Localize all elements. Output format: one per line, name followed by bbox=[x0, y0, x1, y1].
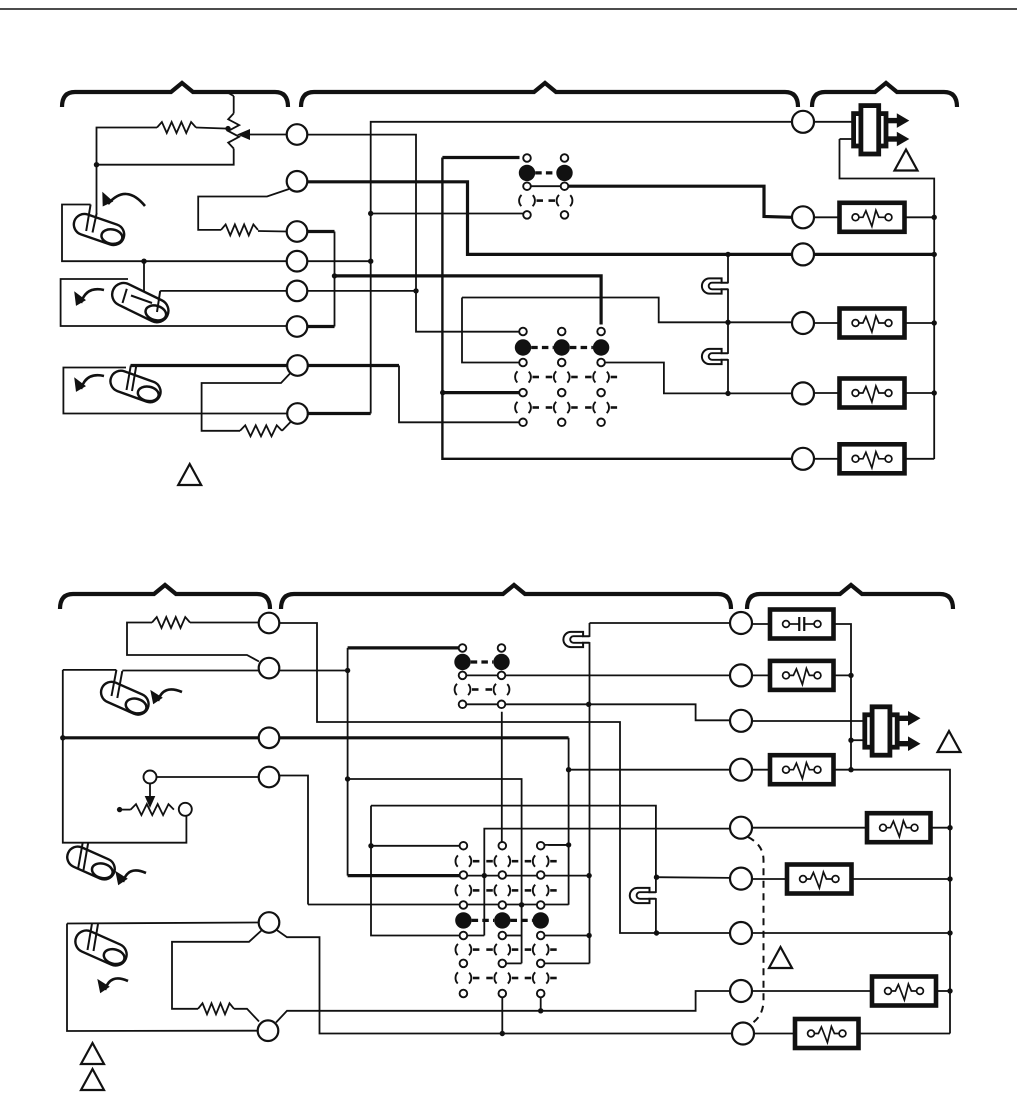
resistor R5b bbox=[198, 1003, 234, 1014]
wire: C7 to right bus bbox=[859, 1033, 951, 1035]
contact K2 col1 open contacts bbox=[515, 369, 531, 385]
wire: C4 to right bus bbox=[931, 827, 951, 829]
wire: B1b left wire bbox=[63, 669, 117, 671]
terminal L5 bbox=[259, 912, 280, 933]
terminal T4 bbox=[287, 251, 308, 272]
node: vertical K / TR2 bbox=[848, 738, 853, 743]
wire: K4 col1 row935 to vertical G bbox=[463, 935, 484, 937]
wire: C6 to right bus bbox=[936, 990, 950, 992]
contact K2 linkage bbox=[531, 346, 553, 349]
contact K4 linkage bbox=[472, 919, 495, 922]
glow lamp LP1b bbox=[583, 637, 593, 642]
wire: R1 right lead to potentiometer bbox=[196, 128, 228, 129]
wire: H1 leads bbox=[814, 216, 840, 218]
terminal Q2 bbox=[730, 664, 752, 686]
resistor R2 bbox=[240, 425, 282, 436]
B3 electrodes bbox=[127, 366, 131, 391]
wire: P2 left lead bbox=[120, 809, 131, 811]
wire: row845 col3 link bbox=[548, 844, 568, 846]
component box C5 bbox=[787, 865, 852, 894]
contact K4 col1 open contacts bbox=[456, 853, 472, 869]
note triangle 6 bbox=[81, 1069, 104, 1090]
wire: L4 left to wiper circle bbox=[157, 776, 259, 778]
wire: bus E top to contact K3 col1 bbox=[348, 646, 463, 649]
wire: L1 right to terminal Q7 long run bbox=[280, 623, 731, 933]
wire: T6 right bbox=[308, 325, 335, 328]
wire: K4 col3 bottom stub bbox=[540, 994, 542, 1011]
contact K3 col2 closed contact bbox=[493, 654, 509, 670]
wire: vertical bus B with top run to terminal R1t bbox=[308, 412, 371, 415]
P1 wiper arrowhead bbox=[237, 129, 250, 140]
node: right bus / Q5 row bbox=[947, 825, 952, 830]
node: lamp bus mid junction bbox=[725, 320, 730, 325]
terminal T3 bbox=[287, 221, 308, 242]
dashed linkage Q5-Q9 bbox=[748, 837, 764, 1024]
note triangle 5 bbox=[81, 1043, 104, 1064]
contact K4 col1 closed contact bbox=[455, 912, 471, 928]
wire: vertical F stub to K4 col2 (upper) bbox=[506, 935, 521, 937]
node: lamp bus top junction bbox=[725, 252, 730, 257]
wire: Q6 left wire bbox=[657, 876, 731, 879]
note triangle 3 bbox=[769, 947, 792, 968]
terminal T1 bbox=[287, 124, 308, 145]
wire: T7 right to K2 col1 bottom bbox=[308, 364, 399, 367]
wire: vertical H branch to Q4 bbox=[569, 769, 731, 771]
potentiometer P1 bbox=[228, 113, 239, 148]
terminal R3t bbox=[792, 243, 814, 265]
terminal R5t bbox=[792, 382, 814, 404]
wire: K4 col3 top to vertical H bbox=[541, 844, 569, 846]
wire: K2 col1 lower branch loop bbox=[462, 298, 792, 323]
glow lamp LP2 bbox=[721, 354, 731, 359]
brace: thermostat section (top diagram) bbox=[62, 83, 288, 107]
wire: K4 col1 top branch bbox=[371, 845, 463, 847]
wire: L4 right to row905 bbox=[280, 776, 309, 905]
terminal Q1 bbox=[730, 612, 752, 634]
contact K4 dashed ticks y978 bbox=[473, 977, 480, 980]
node: row875 / vertical G junction bbox=[482, 873, 487, 878]
wire: T1 right to vertical bus A bbox=[308, 135, 524, 332]
wire: R5b to L6 bbox=[234, 1009, 259, 1022]
mercury switch B2b bbox=[64, 843, 119, 883]
wire: K1 output row to heat anticipator H1 bbox=[527, 185, 565, 187]
contact K3 linkage bbox=[471, 660, 494, 663]
contact K4 col2 open contacts bbox=[494, 853, 510, 869]
contact K1 linkage bbox=[535, 171, 556, 174]
terminal R6t bbox=[792, 448, 814, 470]
terminal L2 bbox=[259, 658, 280, 679]
brace: relay panel section (top diagram) bbox=[301, 83, 798, 107]
wire: vertical G to Q5 run bbox=[484, 829, 730, 936]
contact K1 col2 terminals bbox=[561, 154, 569, 162]
mercury switch B1 bbox=[71, 211, 127, 249]
contact K3 col2 open contact bbox=[494, 682, 510, 698]
terminal L3 bbox=[259, 728, 280, 749]
wire: contact K1 top feed bbox=[442, 156, 519, 159]
wire: vertical I left side bbox=[371, 806, 463, 936]
node: K4 col3 stub / Q8 run bbox=[538, 1008, 543, 1013]
terminal R2t bbox=[792, 206, 814, 228]
terminal T2 bbox=[287, 171, 308, 192]
wire: bulb B2 electrode 2 to terminal T5 bbox=[160, 290, 286, 292]
terminal T5 bbox=[287, 281, 308, 302]
node: lamp bus bottom junction bbox=[725, 391, 730, 396]
contact K4 col3 closed contact bbox=[533, 912, 549, 928]
wire: vertical bus D bbox=[442, 158, 792, 459]
contact K3 col1 terminals bbox=[459, 644, 467, 652]
wire: lamp bus bottom to K4 col3 bbox=[541, 962, 590, 964]
wire: T4 right bbox=[308, 260, 371, 262]
node: right bus / Q6 row bbox=[947, 876, 952, 881]
wire: pair K3 mid row to Q2 bbox=[463, 674, 731, 676]
wire: resistor R4b loop from L1 bbox=[190, 622, 259, 624]
terminal L1 bbox=[259, 613, 280, 634]
wire: L3 row to vertical H bbox=[63, 736, 569, 739]
mercury switch B3 bbox=[107, 368, 163, 406]
contact K4 dashed ticks y861.2 bbox=[473, 860, 480, 863]
contact K2 dashed ticks y377 bbox=[533, 376, 540, 379]
B3 rotation arrow bbox=[81, 375, 104, 389]
node: B1 box / bulb B2 electrode junction bbox=[141, 259, 146, 264]
wire: R1 left lead and corner down to bulb B1 electrode bbox=[97, 128, 158, 214]
node: bus D / K2 branch bbox=[440, 390, 445, 395]
contact K2 col3 open contacts bbox=[593, 369, 609, 385]
wire: C1 to vertical K bbox=[834, 624, 852, 770]
wire: C5 to right bus bbox=[852, 878, 951, 880]
wire: P2 right lead down and around to bulb B2b bbox=[63, 670, 187, 843]
B1b electrodes bbox=[112, 670, 117, 696]
wire: B3b top wire to L5 bbox=[67, 923, 259, 924]
node: bus C junction bbox=[332, 273, 337, 278]
wire: Q2 to box C2 bbox=[752, 674, 771, 676]
wire: P1 wiper to terminal T1 bbox=[248, 134, 287, 136]
B2b electrodes bbox=[78, 843, 83, 869]
node: vertical H / Q4 branch bbox=[566, 767, 571, 772]
terminal L6 bbox=[258, 1020, 279, 1041]
contact K4 col1 terminals bbox=[460, 842, 468, 850]
terminal R1t bbox=[792, 111, 814, 133]
brace: equipment section (bottom diagram) bbox=[747, 585, 953, 609]
component box C2 bbox=[770, 661, 834, 690]
wire: P1 bottom return to bulb wire bbox=[97, 149, 234, 165]
node: bus B / T4 junction bbox=[368, 259, 373, 264]
node: right bus / H2 bbox=[932, 320, 937, 325]
heat anticipator H1 box bbox=[840, 203, 905, 232]
wire: L6 right diagonal to Q8 run bbox=[276, 991, 731, 1023]
wire: Q1 to box C1 bbox=[752, 623, 771, 625]
contact K2 col2 terminals bbox=[558, 328, 566, 336]
wire: Q8 to box C6 bbox=[752, 990, 873, 992]
component box C3 bbox=[770, 755, 834, 784]
contact K2 col1 terminals bbox=[519, 328, 527, 336]
heat anticipator H4 box bbox=[840, 444, 905, 473]
wire: bus E bottom row to K4 bbox=[348, 874, 464, 877]
node: bus B / contact branch junction bbox=[368, 211, 373, 216]
node: vertical H / K4 col3 top bbox=[566, 842, 571, 847]
wire: bulb B2 electrode 1 drop bbox=[143, 261, 145, 300]
contact K4 col2 terminals bbox=[499, 842, 507, 850]
wire: C2 right lead bbox=[834, 674, 852, 676]
component box C6 bbox=[872, 977, 936, 1006]
terminal L4 bbox=[259, 767, 280, 788]
wire: Q5 to box C4 bbox=[752, 827, 868, 829]
contact K2 col3 terminals bbox=[597, 328, 605, 336]
wire: Q7 right to right bus bbox=[752, 932, 951, 934]
wire: L5 lower loop to resistor R5b bbox=[172, 930, 262, 1009]
node: vertical I / K4 col1 top bbox=[368, 843, 373, 848]
wire: Q3 to transformer TR2 bbox=[752, 720, 867, 722]
wire: bulb B3 electrodes to terminal T7 bbox=[131, 364, 288, 367]
node: vertical F / row905 junction bbox=[519, 902, 524, 907]
terminal Q9 bbox=[732, 1023, 754, 1045]
wire: K4 col3 row935 to lamp bus bbox=[541, 935, 589, 937]
wire: R3t to right bus bbox=[814, 253, 934, 256]
node: R1-pot junction bbox=[225, 126, 230, 131]
contact K4 dashed ticks y890.4 bbox=[473, 889, 480, 892]
note triangle 4 bbox=[938, 731, 961, 752]
wire: B1b right electrode to L2 and bus E bbox=[122, 670, 347, 672]
wire: bulb B2 box bbox=[61, 279, 287, 326]
wire: T5 right bbox=[308, 290, 417, 292]
brace: thermostat section (bottom diagram) bbox=[60, 585, 270, 609]
contact K2 col3 closed contact bbox=[593, 339, 609, 355]
terminal Q3 bbox=[730, 710, 752, 732]
page top rule bbox=[0, 8, 1017, 10]
terminal Q6 bbox=[730, 868, 752, 890]
wire: bus B branch to contact K1 lower bbox=[371, 213, 527, 215]
node: vertical K bottom bbox=[848, 767, 853, 772]
wire: T2 lower loop bbox=[198, 189, 289, 230]
heat anticipator H3 box bbox=[840, 379, 905, 408]
note triangle 2 bbox=[178, 464, 201, 485]
wire: pair K3 bottom row to Q3 bbox=[463, 704, 731, 720]
wire: vertical I loop bbox=[371, 806, 656, 933]
wire: Q6 to box C5 bbox=[752, 878, 788, 880]
wire: bus D branch to K2 column 1 bbox=[443, 391, 523, 394]
brace: equipment section (top diagram) bbox=[812, 83, 957, 107]
contact K1 col2 closed contact bbox=[556, 165, 572, 181]
node: vertical J / Q6 bbox=[654, 875, 659, 880]
node: bus E / jumper branch bbox=[345, 776, 350, 781]
resistor R3 bbox=[221, 224, 258, 235]
contact K2 col1 closed contact bbox=[515, 339, 531, 355]
mercury switch B2 bbox=[108, 279, 172, 326]
B1 rotation arrow bbox=[108, 194, 145, 206]
node: right bus / H3 bbox=[932, 390, 937, 395]
node: Q7 left junction bbox=[654, 930, 659, 935]
note triangle 1 bbox=[895, 150, 918, 171]
wire: vertical F stub to K4 col2 (lower) bbox=[506, 962, 521, 964]
contact K1 dashed ticks bbox=[537, 199, 544, 202]
terminal T6 bbox=[287, 316, 308, 337]
P2 wiper arrowhead bbox=[145, 796, 156, 808]
wire: R1t to TR1 bbox=[814, 121, 855, 123]
wire: Q4 to box C3 bbox=[752, 769, 771, 771]
transformer TR2 bbox=[897, 716, 909, 721]
terminal Q4 bbox=[730, 759, 752, 781]
contact K2 col2 closed contact bbox=[554, 339, 570, 355]
wire: Q9 to box C7 bbox=[754, 1033, 796, 1035]
B1 electrodes bbox=[86, 205, 90, 232]
node: L3 left junction bbox=[60, 735, 65, 740]
wire: transformer TR1 lower lead to right bus bbox=[840, 138, 856, 140]
wire: C3 to right bus bbox=[834, 770, 951, 1034]
terminal T7 bbox=[287, 355, 308, 376]
wire: bulb B3 box to terminal T8 bbox=[63, 368, 287, 414]
terminal Q8 bbox=[730, 980, 752, 1002]
wire: B3b box bbox=[67, 924, 258, 1032]
wire: P2 wiper drop bbox=[149, 784, 151, 803]
contact K4 col3 terminals bbox=[537, 842, 545, 850]
brace: relay panel section (bottom diagram) bbox=[281, 585, 731, 609]
B2 rotation arrow bbox=[81, 289, 104, 303]
wire: L5 right diagonal to Q9 run bbox=[276, 930, 733, 1034]
wire: bus C to contact K2 column 3 top bbox=[335, 276, 602, 325]
wire: H3 leads bbox=[814, 392, 840, 394]
wire: T7 auxiliary loop down bbox=[202, 374, 290, 431]
wire: bus E vertical bbox=[347, 648, 349, 876]
contact K4 dashed ticks y949.6 bbox=[473, 948, 480, 951]
node: lamp bus / row935 bbox=[586, 933, 591, 938]
resistor R4b bbox=[152, 617, 190, 628]
wiper small circle SC1 bbox=[144, 771, 157, 784]
node: bus A / T5 junction bbox=[413, 288, 418, 293]
wire: bus E branch to vertical F bbox=[348, 779, 522, 963]
contact K4 col3 open contacts bbox=[533, 853, 549, 869]
wire: T3 right to vertical bus C bbox=[308, 230, 335, 233]
wire: R2 to T8 bbox=[282, 422, 291, 431]
node: right bus / heat anticipator H1 bbox=[932, 215, 937, 220]
contact K2 dashed ticks y407.5 bbox=[533, 406, 540, 409]
P2 right circle SC2 bbox=[179, 803, 192, 816]
node: vertical K / C2 bbox=[848, 673, 853, 678]
component box C4 bbox=[867, 813, 931, 842]
potentiometer P1 stub top bbox=[233, 96, 235, 113]
contact K2 col2 open contacts bbox=[554, 369, 570, 385]
mercury switch B1b bbox=[97, 678, 152, 718]
contact K3 col1 open contact bbox=[455, 682, 471, 698]
wire: T2 right to terminal R3t bbox=[308, 182, 793, 255]
node: row875 / lamp bus junction bbox=[586, 873, 591, 878]
contact K3 dashed ticks bbox=[472, 688, 479, 691]
B3b electrodes bbox=[88, 924, 93, 951]
B3b rotation arrow bbox=[105, 978, 128, 990]
wire: R3 to terminal T3 bbox=[258, 230, 287, 233]
contact K1 col1 open contact bbox=[519, 193, 535, 209]
heat anticipator H2 box bbox=[840, 309, 905, 338]
contact K4 col2 closed contact bbox=[494, 912, 510, 928]
terminal R4t bbox=[792, 312, 814, 334]
node: K3 bottom row / lamp bus bbox=[586, 702, 591, 707]
component box C7 bbox=[795, 1019, 859, 1048]
wire: lamp bus vertical bbox=[727, 254, 729, 393]
wire: drop to K2 col1 bbox=[462, 298, 523, 363]
wire: row905 bbox=[308, 904, 569, 906]
wire: K4 col2 bottom stub bbox=[501, 994, 503, 1034]
wire: bulb B1 box left side bbox=[62, 205, 287, 262]
wire: TR2 lower-left stub bbox=[851, 739, 866, 741]
potentiometer P2 bbox=[131, 804, 174, 815]
node: right bus / Q7 row bbox=[947, 930, 952, 935]
component box C1 (capacitor) bbox=[770, 610, 834, 639]
contact K1 col2 open contact bbox=[557, 193, 573, 209]
node: K4 col2 stub / Q9 run bbox=[500, 1031, 505, 1036]
node: P2 left end bbox=[117, 807, 122, 812]
wire: long vertical col2 link bbox=[501, 712, 503, 842]
B2 electrodes bbox=[123, 289, 127, 303]
mercury switch B3b bbox=[72, 927, 131, 969]
terminal Q7 bbox=[730, 922, 752, 944]
resistor R1 bbox=[157, 122, 196, 133]
B2b rotation arrow bbox=[123, 870, 146, 882]
node: right bus / R3t bbox=[932, 252, 937, 257]
contact K3 col1 closed contact bbox=[454, 654, 470, 670]
wire: K2 col3 step to terminal R5t bbox=[601, 363, 792, 394]
transformer TR1 bbox=[886, 118, 898, 123]
wire: lamp bus top to Q1 bbox=[590, 622, 731, 624]
B1b rotation arrow bbox=[158, 689, 182, 701]
terminal T8 bbox=[287, 403, 308, 424]
node: right bus / Q8 row bbox=[947, 988, 952, 993]
wire: H4 leads bbox=[814, 458, 840, 460]
glow lamp LP2b bbox=[649, 893, 659, 898]
contact K1 col1 terminals bbox=[523, 154, 531, 162]
glow lamp LP1 bbox=[721, 283, 731, 288]
node: P1 return junction bbox=[94, 162, 99, 167]
terminal Q5 bbox=[730, 817, 752, 839]
node: bus E / L2 junction bbox=[345, 668, 350, 673]
contact K1 col1 closed contact bbox=[519, 165, 535, 181]
contact K3 col2 terminals bbox=[498, 644, 506, 652]
wire: H2 leads bbox=[814, 322, 840, 324]
